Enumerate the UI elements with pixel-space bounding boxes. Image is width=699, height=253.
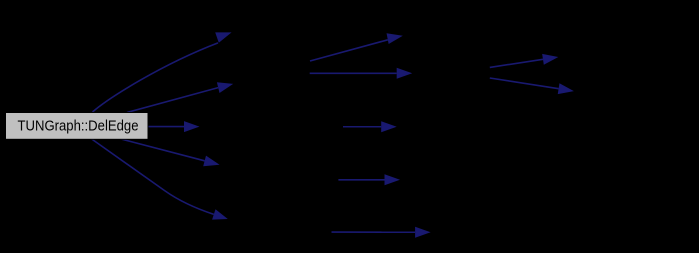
arrowhead M5: [415, 227, 431, 238]
edge E2: DelEdge -> row2 node: [127, 88, 218, 113]
arrowhead R1: [542, 54, 558, 65]
edge R1: second-level node -> third-level node (upper): [490, 59, 543, 67]
svg-text:TUNGraph::DelEdge: TUNGraph::DelEdge: [18, 118, 139, 134]
edge M4: row4 node -> second-level node (horizontal): [338, 179, 384, 181]
edge R2: second-level node -> third-level node (lower): [490, 78, 559, 89]
arrowhead R2: [558, 83, 574, 94]
edge E1: DelEdge -> row1 node (curved): [93, 43, 219, 112]
arrowhead M4: [385, 174, 401, 185]
arrowhead E5: [212, 209, 228, 219]
edge M5: row5 node -> second-level node (horizontal): [332, 231, 416, 233]
arrowhead E3: [184, 121, 200, 132]
arrowhead M2: [397, 68, 413, 79]
arrowhead M1: [387, 33, 403, 44]
arrowhead E2: [217, 82, 233, 93]
edge M1: row2 node -> second-level node (upper): [310, 40, 388, 61]
edge M2: row2 node -> second-level node (horizontal): [310, 72, 397, 74]
arrowhead M3: [381, 121, 397, 132]
edge E4: DelEdge -> row4 node: [121, 139, 205, 161]
node TUNGraph::DelEdge (root, visible grey box): [6, 113, 149, 140]
edge M3: row3 node -> second-level node (horizontal): [343, 126, 381, 128]
edge E5: DelEdge -> row5 node (curved): [92, 139, 214, 215]
arrowhead E1: [215, 32, 231, 42]
arrowhead E4: [203, 156, 219, 167]
edge E3: DelEdge -> row3 node (horizontal): [148, 126, 184, 128]
